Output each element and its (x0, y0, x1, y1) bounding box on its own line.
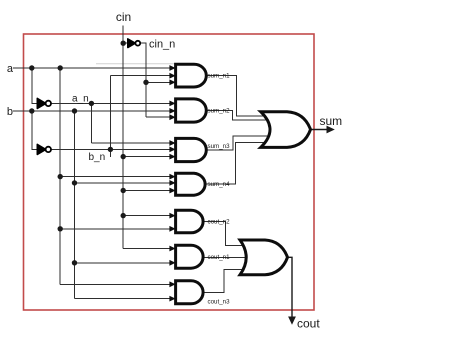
and-gate G3 sum_n3 (176, 138, 207, 161)
svg-text:cout: cout (297, 317, 320, 331)
wire cin to G5 input 1 (123, 215, 170, 217)
svg-text:sum_n4: sum_n4 (208, 181, 231, 188)
arrowhead G2 input 1 (169, 101, 175, 107)
arrowhead G4 input 2 (169, 180, 175, 186)
wire G5 output to OR2 (202, 222, 250, 246)
arrowhead G2 input 2 (169, 108, 175, 114)
or-gate OR2 cout (240, 240, 288, 275)
wire a_n vertical distribution (90, 103, 92, 143)
and-gate G5 cout_n2 (176, 210, 203, 233)
svg-text:cin_n: cin_n (149, 39, 175, 51)
junction dot a_n (89, 101, 94, 106)
svg-text:cin: cin (116, 10, 131, 24)
and-gate G7 cout_n3 (176, 281, 204, 304)
junction dot b row 1 (29, 108, 34, 113)
arrowhead G7 input 1 (169, 281, 175, 287)
wire a drop to inverter U1 (32, 68, 38, 103)
arrowhead G6 input 2 (169, 260, 175, 266)
svg-text:sum_n3: sum_n3 (208, 143, 231, 150)
wire b vertical distribution (74, 111, 76, 298)
wire G1 output to OR1 (205, 76, 272, 117)
arrowhead G1 input 2 (169, 73, 175, 79)
svg-text:b: b (7, 106, 13, 118)
arrowhead G3 input 2 (169, 147, 175, 153)
wire cin to G4 input 3 (123, 190, 170, 192)
junction dot b G4 (72, 180, 77, 185)
wire G4 output to OR1 (205, 142, 272, 184)
svg-text:cout_n2: cout_n2 (208, 218, 231, 225)
wire a to G5 input 2 (60, 228, 170, 230)
arrowhead G1 input 1 (169, 65, 175, 71)
wire a_n row (51, 102, 170, 104)
arrowhead G7 input 2 (169, 296, 175, 302)
wire b_n to G1 input 2 (110, 75, 169, 77)
wire a to G4 input 1 (60, 176, 170, 178)
wire b to G7 input 2 (75, 298, 170, 300)
arrowhead G4 input 1 (169, 174, 175, 180)
arrowhead cout output (288, 317, 296, 325)
wire cin_n to G2 input 3 (146, 116, 170, 118)
wire cin to G6 input 1 (123, 248, 170, 250)
wire G3 output to OR1 (205, 136, 272, 150)
arrowhead G4 input 3 (169, 188, 175, 194)
wire G7 output to OR2 (202, 270, 250, 293)
wire b to G6 input 2 (75, 262, 170, 264)
wire cin_n from inverter U3 (140, 43, 146, 117)
and-gate G2 sum_n2 (176, 99, 207, 122)
junction dot b_n (108, 147, 113, 152)
arrowhead G1 input 3 (169, 79, 175, 85)
junction dot cin_n G1 (143, 80, 148, 85)
svg-text:cout_n1: cout_n1 (208, 254, 231, 261)
or-gate OR1 sum (261, 112, 311, 148)
red boundary box (24, 34, 315, 310)
junction dot cin at inverter (121, 41, 126, 46)
junction dot b row 2 (72, 108, 77, 113)
wire cin to G3 input 3 (123, 156, 170, 158)
arrowhead G5 input 1 (169, 213, 175, 219)
junction dot a G4 (58, 174, 63, 179)
and-gate G6 cout_n1 (176, 245, 204, 268)
inverter U3 cin_n (128, 39, 140, 48)
junction dot a row 2 (58, 65, 63, 70)
wire cin stub to inverter U3 (123, 42, 128, 44)
svg-text:sum_n2: sum_n2 (208, 107, 231, 114)
junction dot cin G5 (121, 213, 126, 218)
wire input b row (13, 110, 170, 112)
wire b to G4 input 2 (75, 182, 170, 184)
wire cout output (288, 257, 293, 318)
arrowhead sum output (327, 126, 335, 134)
arrowhead G5 input 2 (169, 226, 175, 232)
inverter U1 a_n (37, 98, 51, 108)
wire a vertical distribution (59, 68, 61, 284)
arrowhead G6 input 1 (169, 246, 175, 252)
wire b_n row (51, 148, 170, 150)
inverter U2 b_n (37, 144, 51, 154)
junction dot a G5 (58, 226, 63, 231)
arrowhead G3 input 1 (169, 140, 175, 146)
svg-text:cout_n3: cout_n3 (208, 299, 231, 306)
wire input a row (13, 67, 170, 69)
wire cin_n to G1 input 3 (146, 81, 170, 83)
svg-text:sum_n1: sum_n1 (208, 73, 231, 80)
wire cin vertical (122, 26, 124, 249)
junction dot b G6 (72, 260, 77, 265)
wire G2 output to OR1 (205, 111, 272, 121)
arrowhead G2 input 3 (169, 114, 175, 120)
svg-text:a: a (7, 63, 14, 75)
and-gate G1 sum_n1 (176, 64, 207, 87)
arrowhead G3 input 3 (169, 154, 175, 160)
wire sum output (311, 129, 329, 131)
wire G6 output to OR2 (202, 256, 250, 258)
wire b drop to inverter U2 (32, 111, 38, 149)
svg-text:a_n: a_n (72, 94, 89, 105)
wire b_n vertical distribution (109, 76, 111, 157)
svg-text:sum: sum (320, 114, 343, 128)
svg-text:b_n: b_n (89, 152, 106, 163)
wire a to G7 input 1 (60, 283, 170, 285)
faint stray wire above G1 (96, 63, 176, 65)
wire a_n to G3 input 1 (91, 142, 169, 144)
and-gate G4 sum_n4 (176, 173, 206, 195)
junction dot cin G4 (121, 188, 126, 193)
junction dot a row 1 (29, 65, 34, 70)
junction dot cin G3 (121, 154, 126, 159)
